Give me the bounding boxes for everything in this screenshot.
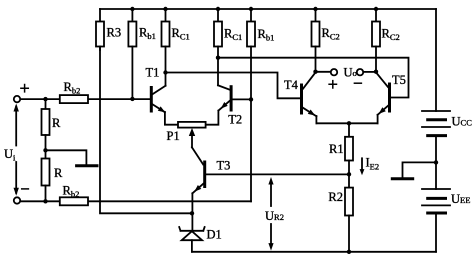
battery UEE xyxy=(422,189,470,213)
node dot divider mid xyxy=(43,148,47,152)
resistor Rb1 (first) xyxy=(128,9,155,47)
source arrow Ui lower xyxy=(15,162,17,193)
node dot emitters join xyxy=(347,121,351,125)
svg-text:T1: T1 xyxy=(146,65,160,79)
wire between batteries xyxy=(435,136,437,189)
svg-text:Rb1: Rb1 xyxy=(258,27,275,43)
svg-text:UEE: UEE xyxy=(451,192,470,206)
svg-text:R2: R2 xyxy=(328,190,343,204)
voltage arrow UR2 upper xyxy=(268,177,273,206)
arrowhead T4 emitter xyxy=(308,110,316,116)
output terminal right circle xyxy=(357,69,363,75)
resistor R lower of divider xyxy=(42,159,64,202)
svg-text:RC1: RC1 xyxy=(172,26,190,42)
input terminal plus circle xyxy=(14,96,20,102)
wire emitters join xyxy=(316,122,377,124)
wire right output to RC2 second node xyxy=(363,71,376,73)
svg-text:P1: P1 xyxy=(167,129,180,143)
svg-text:T4: T4 xyxy=(284,78,299,92)
wire between divider resistors xyxy=(45,135,47,159)
resistor RC2 (first) xyxy=(312,9,340,47)
svg-text:Rb2: Rb2 xyxy=(64,80,81,96)
svg-text:Rb2: Rb2 xyxy=(63,184,80,200)
node dot rail Rb1 first xyxy=(130,7,134,11)
svg-text:D1: D1 xyxy=(207,228,222,242)
wire T2 emitter to P1 right xyxy=(206,111,219,125)
node dot rail RC1 first xyxy=(163,7,167,11)
plus sign of input xyxy=(21,85,28,92)
minus sign of input xyxy=(22,188,29,190)
resistor Rb2 lower xyxy=(60,184,88,206)
wire RC2 second column to T5 collector node xyxy=(375,47,377,72)
resistor RC1 (second) xyxy=(214,9,242,47)
svg-text:R: R xyxy=(52,116,61,130)
resistor RC2 (second) xyxy=(372,9,400,47)
node dot rail RC2 first xyxy=(313,7,317,11)
wire bottom rail xyxy=(192,251,436,253)
transistor T1 xyxy=(146,65,166,112)
wire divider midpoint to left ground xyxy=(46,150,87,164)
wire T1 base from plus terminal xyxy=(20,98,149,100)
wire RC2 column to T4 collector node xyxy=(315,47,317,72)
current arrow IE2 xyxy=(360,156,380,176)
wire to right ground xyxy=(403,162,437,177)
node dot input plus xyxy=(43,97,47,101)
plus sign output xyxy=(329,81,336,88)
node dot RC1 first tap xyxy=(163,70,167,74)
arrowhead T3 emitter xyxy=(194,185,201,192)
wire Rb1 column to T1 base node xyxy=(131,47,133,99)
minus sign output xyxy=(354,82,361,84)
source arrow Ui upper xyxy=(15,107,17,146)
arrowhead T2 emitter xyxy=(221,102,228,109)
node dot RC1 second tap xyxy=(216,56,220,60)
node dot T1 base xyxy=(130,97,134,101)
wire T3 emitter down xyxy=(191,193,193,231)
node dot R2 bottom xyxy=(347,250,351,254)
svg-text:Uo: Uo xyxy=(344,65,357,79)
resistor Rb1 (second) xyxy=(247,9,274,47)
svg-text:R1: R1 xyxy=(329,142,344,156)
ground right xyxy=(392,177,412,180)
zener diode D1 xyxy=(179,227,222,252)
svg-text:T3: T3 xyxy=(217,159,231,173)
svg-text:UCC: UCC xyxy=(452,115,473,129)
node dot rail Rb1 second xyxy=(249,7,253,11)
wire Rb1 second column down to bottom input wire xyxy=(250,47,252,202)
svg-text:RC2: RC2 xyxy=(322,26,340,42)
wire RC2 node to left output xyxy=(316,71,331,73)
wiper arrow of P1 xyxy=(191,135,193,147)
resistor Rb2 upper xyxy=(60,80,88,103)
arrowhead T1 emitter xyxy=(158,106,166,112)
output terminal left circle xyxy=(331,69,337,75)
svg-text:T5: T5 xyxy=(392,73,406,87)
svg-text:R3: R3 xyxy=(107,26,122,40)
transistor T5 xyxy=(376,72,406,114)
node dot rail RC2 second xyxy=(374,7,378,11)
wire T5 emitter down xyxy=(377,115,379,124)
resistor R1 xyxy=(329,123,353,174)
wire RC1 second column to T2 collector xyxy=(217,47,219,86)
wire T1 emitter to P1 left xyxy=(165,112,178,125)
arrowhead Ui down xyxy=(14,188,19,196)
wire top supply rail xyxy=(100,8,436,10)
wire T2 base to Rb1 column xyxy=(233,98,251,100)
svg-text:Rb1: Rb1 xyxy=(139,26,156,42)
node dot input minus xyxy=(43,199,47,203)
node dot T3 emitter xyxy=(190,211,194,215)
battery Ucc xyxy=(422,111,472,136)
wire cross-coupling from RC1 second to T5 base xyxy=(218,58,409,98)
svg-text:T2: T2 xyxy=(228,113,242,127)
wire R3 column down to T3 emitter node xyxy=(100,47,192,214)
arrowhead T5 emitter xyxy=(379,107,386,114)
wire bottom input line to Rb1 second column xyxy=(20,200,251,202)
wire right supply column to Ucc xyxy=(435,9,437,111)
node dot rail RC1 second xyxy=(216,7,220,11)
transistor T2 xyxy=(218,85,242,126)
potentiometer P1 xyxy=(167,122,206,143)
resistor R3 xyxy=(96,9,121,50)
resistor R upper of divider xyxy=(42,99,62,135)
svg-text:RC2: RC2 xyxy=(382,27,400,43)
arrowhead Ui up xyxy=(14,104,19,112)
wire UEE to bottom rail xyxy=(435,213,437,252)
svg-text:RC1: RC1 xyxy=(224,27,242,43)
voltage arrow UR2 lower xyxy=(268,224,273,251)
wire RC1 column to T1 collector xyxy=(165,47,167,86)
wire cross-coupling from RC1 first to T4 base xyxy=(166,73,300,99)
svg-text:R: R xyxy=(54,166,63,180)
transistor T3 xyxy=(192,147,230,193)
node dot battery mid xyxy=(434,160,438,164)
svg-text:Ui: Ui xyxy=(4,147,16,163)
resistor R2 xyxy=(328,174,353,252)
ground left xyxy=(77,164,97,167)
wire T4 emitter down xyxy=(315,116,317,123)
node dot T5 collector xyxy=(374,70,378,74)
svg-text:UR2: UR2 xyxy=(265,209,284,223)
transistor T4 xyxy=(284,72,316,116)
input terminal minus circle xyxy=(14,197,20,203)
svg-text:IE2: IE2 xyxy=(366,156,380,172)
node dot T2 base xyxy=(249,97,253,101)
node dot T4 collector xyxy=(313,70,317,74)
node dot R1 R2 junction xyxy=(347,172,351,176)
wire T3 base to R1R2 junction xyxy=(206,173,349,175)
resistor RC1 (first) xyxy=(162,9,190,47)
